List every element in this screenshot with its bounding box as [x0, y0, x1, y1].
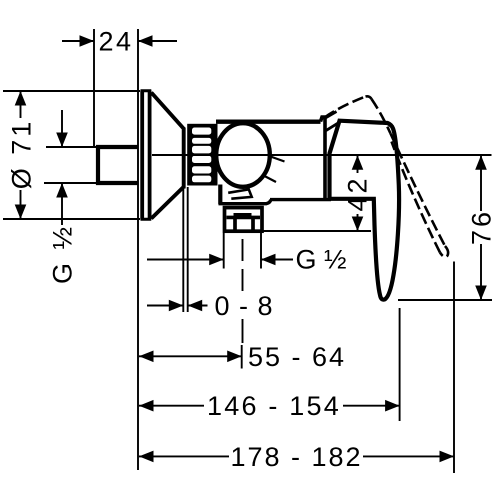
178-182: [139, 455, 454, 457]
svg-text:76: 76: [467, 209, 497, 245]
union nut knurl: [187, 124, 217, 186]
boss face line: [228, 189, 252, 198]
handle heel lines: [325, 112, 339, 131]
lever handle (solid, lowered): [330, 121, 400, 300]
svg-text:Ø 71: Ø 71: [7, 119, 37, 190]
G1/2 bottom: [147, 259, 293, 261]
cartridge dome: [216, 123, 270, 187]
svg-text:G ½: G ½: [295, 245, 346, 275]
svg-text:55 - 64: 55 - 64: [248, 342, 346, 372]
dome ticks: [265, 157, 285, 183]
24 dim: [62, 40, 177, 42]
escutcheon cone: [151, 93, 184, 219]
body bottom line: [219, 200, 332, 204]
svg-text:146 - 154: 146 - 154: [207, 391, 341, 421]
dashed handle (raised): [325, 96, 449, 257]
body end cap: [321, 117, 326, 198]
svg-text:42: 42: [343, 175, 373, 211]
0-8: [147, 305, 208, 307]
42 dim: [357, 155, 359, 231]
svg-text:24: 24: [98, 27, 133, 57]
svg-text:G ½: G ½: [48, 224, 78, 284]
G1/2 left: [44, 147, 96, 183]
wall reference line: [137, 29, 139, 470]
146-154: [139, 405, 400, 407]
76 dim: [480, 155, 482, 300]
outlet union nut: [225, 208, 263, 232]
outlet centerline: [242, 239, 244, 291]
outlet boss: [218, 185, 222, 205]
escutcheon flange plate: [141, 91, 152, 219]
inlet stub pipe: [98, 147, 138, 183]
centerline axis: [152, 154, 492, 156]
dia 71 ext lines: [3, 91, 140, 219]
svg-text:0 - 8: 0 - 8: [214, 291, 273, 321]
svg-text:178 - 182: 178 - 182: [230, 442, 362, 472]
55-64: [139, 355, 242, 357]
body top line: [216, 119, 321, 123]
